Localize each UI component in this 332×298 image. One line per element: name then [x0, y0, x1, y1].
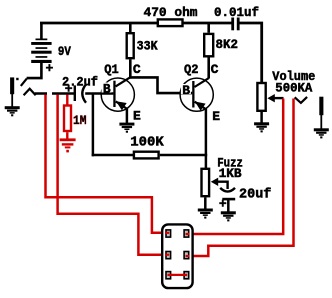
- capacitor C3 20uf curved plate: [220, 188, 235, 192]
- wire Q2 emitter down to fuzz pot: [205, 109, 208, 169]
- output jack lead: [320, 115, 322, 129]
- wire 8K2 bottom to Q2 collector: [207, 58, 210, 79]
- wire volume pot to ground: [260, 112, 263, 123]
- svg-text:33K: 33K: [137, 40, 158, 54]
- red wire 2 footswitch lug row2 col1 to 2.2uf input: [58, 95, 167, 255]
- resistor 1M bottom lead: [66, 132, 68, 139]
- ground Q1 emitter: [119, 123, 134, 133]
- resistor R2 1M body: [64, 106, 71, 132]
- wire signal segment B (red wire 2 to 2.2uf cap): [52, 92, 74, 95]
- input jack J1 body bar: [10, 77, 14, 94]
- svg-text:C: C: [133, 62, 141, 77]
- wire signal segment A (jack tip to red wire 1): [35, 92, 47, 95]
- footswitch lug row3 col1: [166, 272, 171, 279]
- resistor R4 8K2 body: [204, 34, 213, 56]
- red wire stub into lug row1 col2: [186, 233, 190, 235]
- resistor R1 470 ohm: [158, 19, 183, 26]
- svg-text:+: +: [219, 197, 227, 212]
- label Q2 B (white backed): [181, 84, 191, 94]
- wire Q1 base node down to 100K: [92, 94, 95, 157]
- svg-text:+: +: [65, 81, 73, 96]
- wire fuzz pot to ground: [204, 197, 207, 209]
- svg-text:1KB: 1KB: [219, 167, 242, 181]
- fuzz pot wiper arrow: [211, 178, 218, 186]
- svg-text:8K2: 8K2: [216, 37, 239, 52]
- volume pot wiper arrow: [267, 94, 274, 102]
- red wire 1 input tip to footswitch lug row1 col1: [46, 95, 167, 233]
- battery bottom lead to switch: [27, 63, 42, 78]
- wire top rail segment 2 (470 ohm to 0.01uf): [183, 22, 232, 25]
- wire 20uf to ground: [227, 200, 230, 212]
- capacitor C2 0.01uf plates: [231, 18, 234, 31]
- footswitch lug row3 col2: [184, 272, 189, 279]
- switch arm diagonal (jack power contact): [21, 79, 27, 86]
- svg-text:100K: 100K: [130, 136, 164, 151]
- svg-text:500KA: 500KA: [275, 82, 312, 96]
- transistor Q2 circle: [180, 78, 213, 111]
- potentiometer VR1 Volume 500KA body: [257, 83, 265, 111]
- wire 33K bottom to Q1 collector: [129, 59, 132, 78]
- footswitch SW1 body: [162, 224, 192, 288]
- red wire 5 jumper between row3 lugs: [167, 274, 187, 276]
- ground output jack: [314, 128, 329, 138]
- battery B1 top lead: [40, 23, 43, 39]
- red wire stub into lug row2 col2: [186, 255, 190, 257]
- resistor R4 8K2 top lead: [207, 23, 210, 33]
- svg-text:B: B: [182, 83, 190, 98]
- resistor R3 33K top lead: [129, 23, 132, 33]
- potentiometer VR2 Fuzz 1KB body: [202, 169, 210, 196]
- svg-text:1M: 1M: [73, 113, 87, 128]
- wire 2.2uf to Q1 base: [85, 92, 113, 95]
- svg-text:Q2: Q2: [184, 62, 199, 77]
- red wire stub into lug row1 col1: [165, 232, 169, 234]
- ground volume pot: [254, 122, 269, 132]
- svg-text:Q1: Q1: [104, 62, 119, 77]
- transistor Q2 collector diagonal: [195, 78, 209, 87]
- svg-text:B: B: [103, 82, 111, 97]
- capacitor C1 2.2uf left plate: [74, 85, 76, 101]
- output jack J2 tip contact V: [295, 97, 307, 103]
- footswitch lug row2 col1: [166, 252, 171, 259]
- svg-text:470 ohm: 470 ohm: [144, 5, 198, 20]
- svg-text:+: +: [46, 61, 54, 76]
- transistor Q1 circle: [101, 78, 134, 111]
- ground fuzz pot: [198, 209, 213, 219]
- capacitor C1 2.2uf curved plate: [82, 84, 86, 103]
- wire 100K right lead to Q2 emitter node: [160, 154, 207, 157]
- footswitch lug row1 col2: [184, 230, 189, 237]
- red wire 4 output jack to footswitch lug row2 col2: [189, 99, 294, 257]
- capacitor C3 20uf flat plate: [222, 198, 235, 201]
- footswitch lug row1 col1: [166, 230, 171, 237]
- ground 20uf: [221, 211, 236, 221]
- svg-text:C: C: [211, 62, 219, 77]
- svg-text:20uf: 20uf: [239, 187, 271, 202]
- input jack tip contact zigzag: [24, 89, 36, 96]
- transistor Q1 base bar: [113, 81, 115, 107]
- wire top rail segment 3 (0.01uf to right corner drop to volume pot): [240, 23, 262, 82]
- red wire stub into lug row2 col1: [165, 254, 169, 256]
- transistor Q2 emitter diagonal with PNP arrow: [195, 102, 207, 110]
- svg-text:0.01uf: 0.01uf: [214, 5, 259, 20]
- ground input jack: [5, 106, 20, 116]
- resistor R3 33K body: [127, 33, 134, 58]
- footswitch lug row2 col2: [184, 252, 189, 259]
- resistor R5 100K body: [134, 152, 159, 159]
- wire Q1 emitter down: [126, 108, 129, 123]
- red wire 3 volume wiper to footswitch lug row1 col2: [189, 99, 284, 235]
- wire Q1 collector to Q2 base: [129, 77, 192, 93]
- wire top rail segment 1 (battery to 470 ohm): [40, 22, 157, 25]
- ground 1M (red): [60, 138, 76, 152]
- output jack J2 body bar: [319, 97, 323, 116]
- input jack lead: [11, 94, 13, 107]
- transistor Q1 emitter diagonal with PNP arrow: [116, 101, 127, 109]
- svg-text:E: E: [212, 109, 220, 124]
- svg-text:9V: 9V: [58, 45, 71, 59]
- svg-text:E: E: [133, 108, 141, 123]
- transistor Q2 base bar: [192, 81, 194, 108]
- transistor Q1 collector diagonal: [116, 78, 130, 87]
- battery B1 9V plates: [31, 39, 51, 64]
- wire 100K left lead: [92, 154, 133, 157]
- resistor R2 1M (red) lead top: [66, 95, 68, 106]
- switch contact tick: [16, 78, 18, 80]
- label Q1 B (white backed): [102, 83, 112, 93]
